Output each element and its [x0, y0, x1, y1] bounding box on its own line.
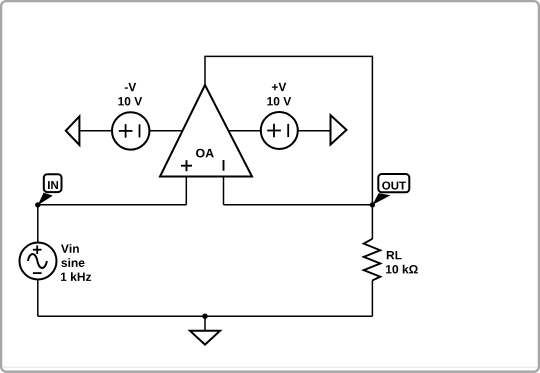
terminal arrow right (+V rail) — [331, 115, 347, 144]
terminal arrow left (-V rail) — [66, 116, 80, 145]
label OA — [196, 149, 214, 158]
label OUT — [382, 182, 406, 190]
wire op-amp to +V source — [228, 130, 261, 132]
wire non-inverting input pin — [185, 177, 187, 205]
wire left arrow to -V source — [79, 130, 112, 132]
wire -V source to op-amp — [149, 130, 185, 132]
junction dot ground — [202, 314, 207, 319]
wire top horizontal — [204, 55, 373, 57]
wire inverting input pin — [223, 177, 225, 205]
junction dot node OUT — [370, 202, 375, 207]
voltage source +V — [261, 83, 298, 149]
wire bottom horizontal — [38, 315, 373, 317]
label Vin — [61, 244, 79, 253]
wire IN horizontal — [38, 204, 187, 206]
wire ground stub — [204, 316, 206, 331]
wire Vin top stub — [37, 205, 39, 243]
source Vin sine — [20, 243, 92, 281]
value 10 V — [267, 97, 291, 106]
wire feedback horizontal — [224, 204, 373, 206]
label RL — [387, 251, 402, 259]
node IN flag — [38, 174, 62, 205]
Vin sine wave — [28, 254, 47, 268]
wire right vertical lower — [371, 280, 373, 316]
op-amp + input mark — [181, 160, 192, 171]
resistor RL — [364, 239, 418, 281]
wire right vertical upper — [371, 56, 373, 239]
node OUT flag — [373, 174, 410, 205]
value 1 kHz — [61, 272, 91, 281]
wire op-amp output stub — [204, 56, 206, 86]
value 10 kOhm — [386, 265, 418, 274]
op-amp - input mark — [223, 160, 225, 171]
Vin polarity marks — [33, 245, 42, 273]
label IN — [48, 181, 58, 189]
ground — [190, 331, 220, 345]
voltage source -V — [112, 83, 149, 150]
label -V — [125, 83, 136, 91]
label +V — [272, 83, 286, 91]
junction dot node IN — [35, 202, 40, 207]
wire Vin bottom stub — [37, 279, 39, 316]
wire +V source to right arrow — [298, 130, 331, 132]
value 10 V — [118, 97, 142, 106]
label sine — [61, 258, 84, 267]
op-amp OA — [160, 85, 252, 177]
